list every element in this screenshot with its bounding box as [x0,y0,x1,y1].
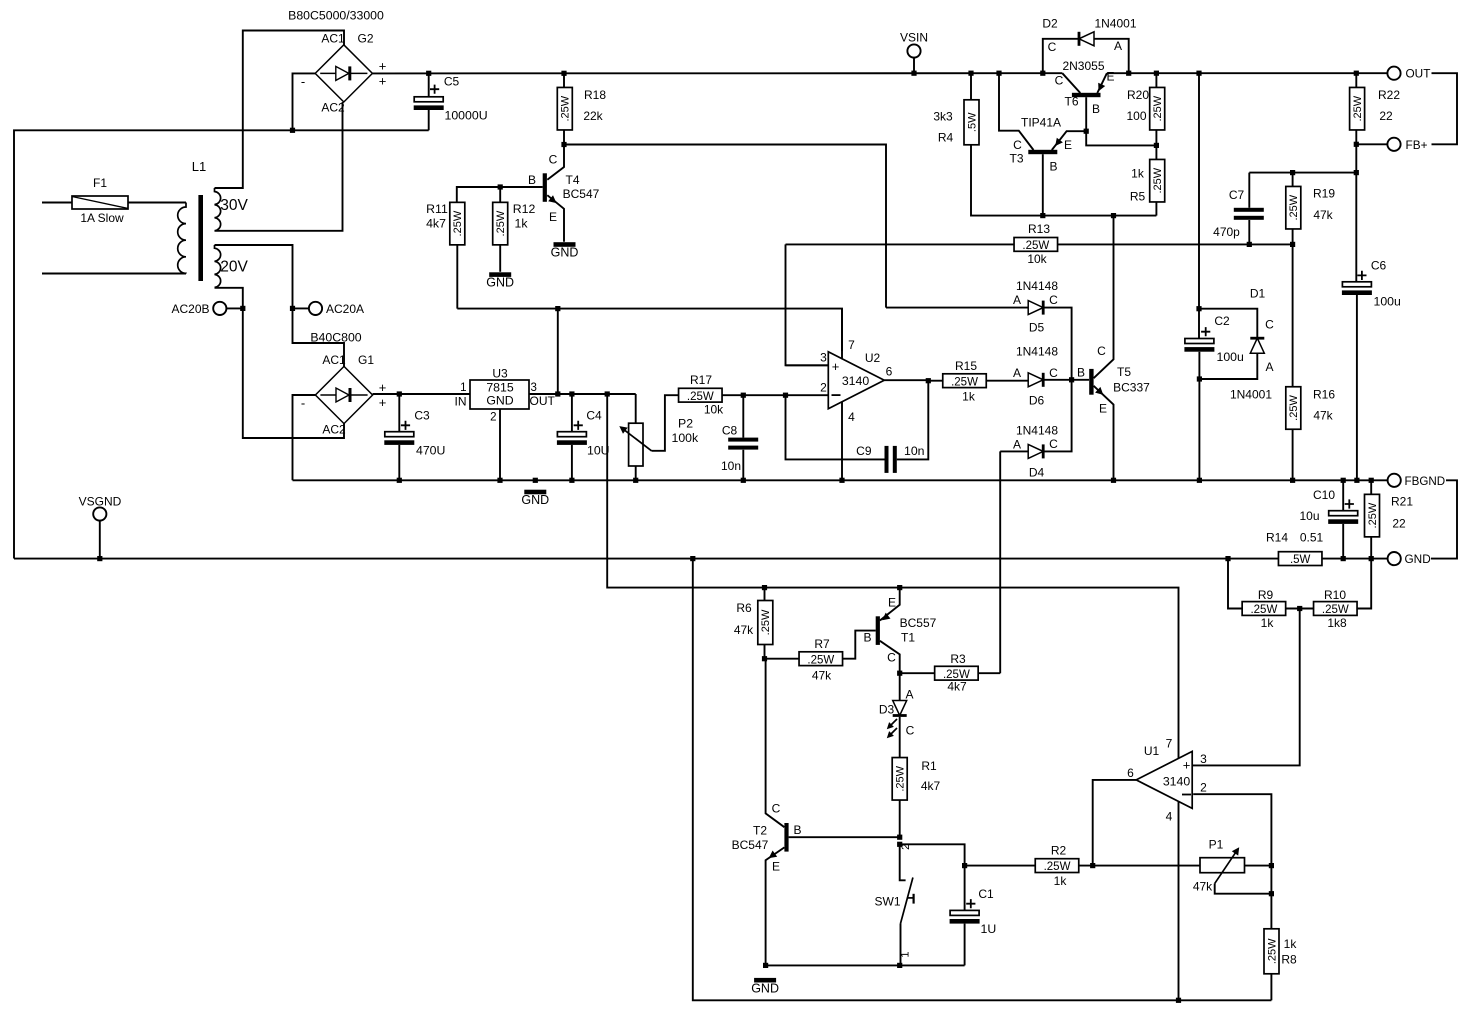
svg-text:R14: R14 [1266,531,1288,545]
svg-text:T6: T6 [1064,95,1078,109]
wire R12 top lead [499,187,501,202]
junction VSIN on rail [911,71,916,76]
junction C10 top [1341,478,1346,483]
svg-text:AC1: AC1 [321,32,345,46]
wire R9/R10 node to U1 pin3 [1193,609,1300,766]
bridge G2 labels [288,9,386,115]
wire R19 top lead [1292,173,1294,187]
potentiometer P1 wiper [1215,852,1237,884]
wire R4 top lead [970,73,972,100]
svg-text:3k3: 3k3 [933,110,953,124]
wire U1 pin6 riser [1093,780,1137,866]
wire bottom local rail [766,964,965,966]
junction G2 minus / minus rail [290,128,295,133]
junction T3 base on R4 row [1040,213,1045,218]
svg-text:.25W: .25W [951,376,978,388]
svg-text:FBGND: FBGND [1405,475,1446,488]
bridge rectifier G2 [315,45,372,102]
svg-text:.25W: .25W [1250,604,1277,616]
transistor T5 emitter [1094,386,1114,481]
bridge G1 labels [301,331,386,437]
ground T4 emitter [551,242,579,259]
junction gnd symbol tap [533,478,538,483]
capacitor C2 [1184,314,1244,364]
junction SW1 gnd [897,963,902,968]
svg-text:470U: 470U [416,444,445,458]
svg-text:1N4148: 1N4148 [1016,345,1058,359]
svg-text:.25W: .25W [760,609,772,635]
wire C9 right lead [897,381,929,460]
svg-text:R9: R9 [1258,588,1274,602]
svg-text:R17: R17 [690,373,712,387]
svg-text:D3: D3 [879,703,895,717]
wire C8 top lead [742,395,744,437]
junction C2 bottom / D1 anode [1197,376,1202,381]
terminal VSGND [93,507,106,520]
svg-text:C: C [1049,437,1058,451]
svg-text:1k: 1k [515,216,529,230]
junction R20/R5 node [1154,143,1159,148]
wire R8 bottom lead [1270,974,1272,1001]
wire P1 wiper lead [1215,884,1272,894]
junction C7/R19 row on FB+ riser [1354,170,1359,175]
svg-text:BC337: BC337 [1113,381,1150,395]
svg-text:R16: R16 [1313,388,1335,402]
junction U2 pin4 gnd [839,478,844,483]
svg-text:+: + [832,359,840,374]
junction OUT riser top [1196,71,1201,76]
junction R18 top [561,71,566,76]
resistor R17 [679,388,723,403]
resistor R11 [450,202,465,245]
svg-text:TIP41A: TIP41A [1021,116,1061,130]
junction T3 collector riser [996,71,1001,76]
wire riser to lower +15 row [607,394,1178,759]
svg-text:AC20B: AC20B [171,302,209,316]
wire C6 bottom lead [1356,295,1358,480]
svg-text:.25W: .25W [560,95,572,121]
wire C10 top lead [1342,480,1344,510]
wire R21 bottom lead [1370,537,1372,559]
wire top rail right segment [1107,72,1387,74]
transistor T6 base bar [1072,93,1101,97]
svg-text:T5: T5 [1117,365,1131,379]
svg-text:D1: D1 [1250,287,1266,301]
transistor T6 collector [1062,73,1080,93]
svg-text:R18: R18 [584,88,606,102]
svg-text:B: B [1077,366,1085,380]
svg-text:1k8: 1k8 [1327,616,1347,630]
svg-text:.25W: .25W [1152,95,1164,121]
resistor R5 [1150,159,1165,202]
svg-text:FB+: FB+ [1406,138,1428,152]
ground main rail [521,490,549,507]
resistor R18 [557,87,572,130]
transistor T3 base lead [1042,154,1044,215]
wire VSGND lead [99,521,101,559]
wire R7 right to T1 base [843,631,876,659]
svg-text:D6: D6 [1029,394,1045,408]
svg-text:R3: R3 [950,652,966,666]
svg-text:T2: T2 [753,824,767,838]
wire FB+ node to C6 [1355,144,1357,281]
capacitor C7 [1234,208,1264,220]
wire D4 anode riser [999,451,1001,673]
ground T2 emitter [751,978,779,995]
wire P2 wiper to R17 [652,395,679,451]
svg-text:R2: R2 [1051,844,1067,858]
junction R6 top [762,585,767,590]
wire R3 left lead [900,672,935,674]
svg-text:VSGND: VSGND [79,495,122,509]
switch SW1 pin1 lead [900,924,902,966]
junction P2 gnd [633,478,638,483]
svg-text:R4: R4 [938,131,954,145]
capacitor C6 [1342,259,1401,309]
svg-text:C: C [549,153,558,167]
svg-text:4k7: 4k7 [426,216,446,230]
svg-text:47k: 47k [1193,880,1213,894]
resistor R12 [493,202,508,245]
svg-text:.25W: .25W [452,210,464,236]
svg-text:1: 1 [460,382,466,394]
svg-text:AC2: AC2 [321,101,345,115]
wire R19 bottom lead [1292,229,1294,244]
wire FB+ lead [1356,143,1387,145]
svg-text:1k: 1k [1284,937,1298,951]
junction U3 out riser on +15 row [555,306,560,311]
wire fuse to transformer [128,202,186,204]
wire R3 right lead [979,672,1001,674]
junction R21 top [1369,478,1374,483]
svg-text:10k: 10k [704,403,724,417]
svg-text:1A Slow: 1A Slow [80,211,124,225]
svg-text:C8: C8 [722,424,738,438]
resistor R21 [1365,494,1380,536]
wire C4 bottom lead [571,445,573,480]
svg-text:GND: GND [486,394,513,408]
svg-text:47k: 47k [1313,409,1333,423]
wire U1 pin4 lead [1178,801,1180,1000]
junction R19 bottom / R16 top [1290,242,1295,247]
svg-text:B: B [528,173,536,187]
svg-text:C6: C6 [1371,259,1387,273]
junction T2 emitter gnd [763,963,768,968]
wire R12 bottom lead [499,245,501,272]
transistor T2 emitter arrow [769,851,777,859]
svg-text:U3: U3 [492,367,508,381]
svg-text:6: 6 [1127,766,1134,780]
junction C4 gnd [569,478,574,483]
svg-text:.25W: .25W [1266,938,1278,964]
svg-text:AC1: AC1 [322,353,346,367]
wire R16 bottom lead [1292,429,1294,480]
svg-text:.25W: .25W [1044,861,1071,873]
junction R16 gnd [1290,478,1295,483]
svg-text:OUT: OUT [1406,67,1431,81]
svg-text:G1: G1 [358,353,374,367]
junction R9/R10 node [1297,606,1302,611]
wire D6 cathode lead [1044,379,1071,381]
svg-text:U2: U2 [865,351,881,365]
svg-text:A: A [1265,360,1273,374]
regulator U3 [460,367,529,410]
wire SW1 node to C1/R2 [900,844,965,865]
wire R8 top lead [1270,866,1272,929]
wire mains bottom lead [42,273,186,275]
wire C10 bottom lead [1342,524,1344,559]
diode D3 led arrows [887,719,897,738]
transistor T1 emitter arrow [882,613,890,621]
svg-text:.5W: .5W [966,112,978,132]
switch SW1 contact [908,897,913,899]
wire C8 bottom lead [742,450,744,481]
svg-text:B: B [1049,160,1057,174]
svg-text:GND: GND [551,246,579,260]
svg-text:100u: 100u [1217,350,1245,364]
wire R10 right lead [1357,559,1371,609]
potentiometer P1 [1200,858,1245,873]
wire T5 base lead [1072,379,1089,381]
capacitor C9 [885,446,889,473]
switch SW1 pin2 lead [900,844,906,880]
wire U3 pin2 lead [499,409,501,480]
wire FBGND to GND bracket [1431,480,1457,558]
svg-text:BC557: BC557 [900,616,937,630]
resistor R20 [1150,87,1165,130]
svg-text:R12: R12 [513,202,536,216]
diode D5 [1028,301,1044,315]
transistor T3 emitter [1052,131,1086,150]
junction R6 bottom / R7 / T2 collector [762,656,767,661]
svg-text:C9: C9 [856,444,872,458]
transistor T1 base bar [876,616,880,645]
junction R12 top on base wire [498,184,503,189]
svg-text:4: 4 [1166,810,1173,824]
wire R21 top lead [1370,480,1372,494]
wire R13 row [786,243,1293,245]
wire R15 left lead [928,380,943,382]
wire G2 minus to left rail [293,73,316,130]
svg-text:1N4148: 1N4148 [1016,424,1058,438]
capacitor C4 [557,409,610,458]
diode D2 cathode lead [1043,39,1079,73]
capacitor C8 [728,438,758,450]
svg-text:22k: 22k [583,109,603,123]
svg-text:R6: R6 [736,601,752,615]
svg-text:U1: U1 [1144,744,1160,758]
terminal OUT [1387,67,1400,80]
wire D4 cathode lead [1044,380,1071,452]
resistor R14 [1278,552,1322,567]
svg-text:R7: R7 [814,637,830,651]
resistor R10 [1314,602,1358,617]
svg-text:100k: 100k [672,431,700,445]
wire R16 top lead [1292,244,1294,386]
svg-text:B40C800: B40C800 [310,331,361,345]
wire P1 right lead [1245,865,1272,867]
junction VSGND [97,556,102,561]
svg-text:.25W: .25W [1367,502,1379,528]
wire branch riser to bottom rail [693,559,1272,1001]
svg-text:C: C [906,724,915,738]
svg-text:E: E [772,860,780,874]
wire R9 branch [1228,559,1242,609]
svg-text:.25W: .25W [1352,95,1364,121]
diode D4 [1028,444,1044,458]
svg-text:IN: IN [455,395,467,409]
svg-text:D5: D5 [1029,321,1045,335]
junction C8 gnd [741,478,746,483]
svg-text:B: B [1092,102,1100,116]
wire top rail left segment [372,72,1062,74]
diode D6 [1028,373,1044,387]
wire C7 bottom lead [1248,220,1250,244]
transistor T4 emitter arrow [548,195,556,203]
svg-text:30V: 30V [220,197,248,214]
wire U2 out lead [884,379,928,381]
wire D1 bottom branch [1199,353,1257,379]
transformer L1 20V winding [215,245,221,288]
junction C2 top / D1 branch [1196,306,1201,311]
fuse F1 [72,176,128,225]
transistor T6 emitter [1097,73,1107,93]
junction wiper node [1269,891,1274,896]
junction R22 top [1354,71,1359,76]
svg-text:C: C [1013,138,1022,152]
junction U3 out node [555,391,560,396]
transistor T5 collector [1094,216,1114,379]
svg-text:AC2: AC2 [322,423,346,437]
svg-text:.25W: .25W [807,654,834,666]
svg-text:1N4001: 1N4001 [1094,17,1136,31]
svg-text:R1: R1 [921,759,937,773]
wire T4 base [457,187,543,202]
resistor R6 [758,601,773,645]
svg-text:A: A [1114,39,1122,53]
wire D5 anode lead [886,307,1028,309]
wire R9-R10 link [1286,608,1314,610]
wire mains top lead [42,202,72,204]
svg-text:C: C [1049,366,1058,380]
diode D2 anode lead [1094,39,1129,73]
ground R12 [486,272,514,289]
junction T5 collector on R4 row [1111,213,1116,218]
resistor R1 [892,758,907,801]
svg-text:3140: 3140 [1163,774,1191,788]
svg-text:2: 2 [820,381,827,395]
transistor T5 base bar [1089,369,1093,395]
junction C5 top [426,71,431,76]
wire P2 top lead [635,394,637,423]
svg-text:B80C5000/33000: B80C5000/33000 [288,9,384,23]
svg-text:10U: 10U [587,444,610,458]
transistor T6 emitter arrow [1098,83,1105,92]
svg-text:BC547: BC547 [563,187,600,201]
svg-text:2: 2 [1200,781,1207,795]
wire R13 to U2 pin3 riser [786,244,829,365]
svg-text:SW1: SW1 [874,895,900,909]
svg-text:1: 1 [900,952,912,958]
svg-text:E: E [1106,70,1114,84]
svg-text:10u: 10u [1299,509,1319,523]
svg-text:VSIN: VSIN [900,31,928,45]
svg-text:GND: GND [1405,552,1431,566]
transistor T2 collector [766,659,785,828]
resistor R2 [1035,859,1079,874]
junction AC20B [240,306,245,311]
svg-text:10n: 10n [904,444,925,458]
svg-text:R21: R21 [1391,495,1413,509]
junction R4 top [968,71,973,76]
svg-text:.25W: .25W [1022,240,1049,252]
svg-text:7815: 7815 [486,381,514,395]
junction T5 base node [1069,377,1074,382]
transistor T4 base bar [543,173,547,202]
svg-text:.25W: .25W [1288,194,1300,220]
svg-text:2N3055: 2N3055 [1062,59,1104,73]
junction C3 top [397,391,402,396]
junction T1 emitter top [897,585,902,590]
svg-text:T3: T3 [1009,152,1023,166]
junction R19 top [1290,170,1295,175]
svg-text:C: C [1097,344,1106,358]
potentiometer P2 wiper [624,429,652,451]
junction R18 bottom node [561,142,566,147]
wire C1 bottom lead [964,924,966,966]
junction SW1 pin2 node [897,842,902,847]
svg-text:C7: C7 [1229,188,1245,202]
transistor T6 base lead [1085,97,1087,131]
wire D4 anode lead [1000,450,1028,452]
svg-text:A: A [1013,293,1021,307]
wire C5 top lead [428,73,430,97]
wire U1 pin2 lead [1193,794,1271,865]
wire 30V top to bridge G2 AC1 [215,31,345,189]
wire R11 bottom to +15 rail [456,245,458,309]
wire R1 bottom lead [899,800,901,837]
wire R22 top lead [1355,73,1357,87]
switch SW1 blade [901,878,913,924]
svg-text:1k: 1k [1261,616,1275,630]
wire AC20B lead [226,307,242,309]
wire R18 bottom lead [563,130,565,145]
diode D1 [1250,337,1264,353]
junction bottom branch riser [690,556,695,561]
svg-text:P1: P1 [1209,838,1224,852]
junction D2 anode on rail [1126,71,1131,76]
junction C10 bottom [1341,556,1346,561]
junction C7 bottom on R13 row [1247,242,1252,247]
junction T6 base / T3 emitter [1084,129,1089,134]
svg-text:C4: C4 [586,409,602,423]
junction FB+ node [1354,142,1359,147]
svg-text:E: E [1064,138,1072,152]
wire R5 top lead [1155,145,1157,159]
svg-text:20V: 20V [220,259,248,276]
wire AC20A lead [293,307,310,309]
svg-text:.25W: .25W [1152,167,1164,193]
svg-text:.25W: .25W [1322,604,1349,616]
svg-text:C: C [1265,318,1274,332]
junction D2 cathode on rail [1040,71,1045,76]
junction R14 left / R9 branch [1225,556,1230,561]
svg-text:C2: C2 [1214,314,1230,328]
svg-text:B: B [793,823,801,837]
diode D2 [1078,32,1094,46]
svg-text:R13: R13 [1028,222,1050,236]
wire R6 top lead [764,588,766,601]
